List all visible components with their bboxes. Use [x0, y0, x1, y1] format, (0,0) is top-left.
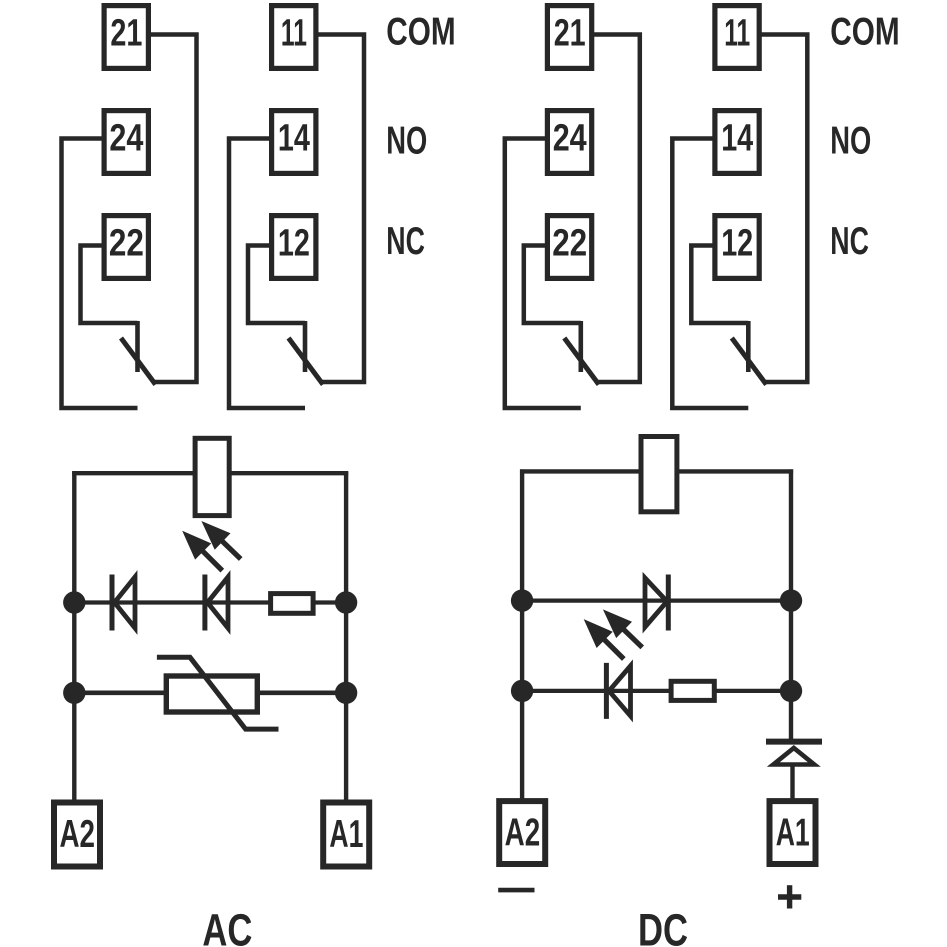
coil K2 (DC relay coil)	[641, 437, 677, 512]
varistor RV1 body (AC)	[166, 676, 257, 712]
polarity plus (DC A1)	[778, 885, 801, 908]
svg-text:A2: A2	[505, 812, 541, 855]
wire NC 12 (AC pole 1)	[248, 246, 305, 324]
NC fixed contact post (DC pole 1)	[746, 321, 751, 372]
wire AC right rail (A1)	[344, 471, 348, 802]
svg-text:A2: A2	[59, 813, 95, 856]
wire COM 11 to switch (AC pole 1)	[317, 35, 364, 383]
resistor R2 (DC)	[671, 681, 714, 700]
terminal 14 (AC pole 1)	[272, 111, 316, 174]
terminal 22 (AC pole 2)	[104, 216, 148, 279]
svg-text:COM: COM	[830, 11, 899, 54]
wire AC top	[72, 471, 348, 475]
wire AC varistor row	[74, 690, 346, 695]
wire DC row 1	[522, 598, 791, 602]
svg-text:22: 22	[109, 223, 144, 265]
terminal 21 (AC pole 2)	[104, 6, 148, 69]
terminal 11 (AC pole 1)	[272, 6, 316, 69]
terminal 24 (AC pole 2)	[104, 111, 148, 174]
svg-text:12: 12	[721, 223, 753, 265]
junction dot DC row1-right	[780, 589, 802, 611]
junction dot AC varistor-right	[335, 682, 357, 704]
switch blade changeover contact (AC pole 1)	[289, 338, 324, 385]
wire NO 24 (DC pole 2)	[505, 139, 581, 409]
wire NO 24 (AC pole 2)	[62, 139, 138, 409]
junction dot DC row2-left	[511, 680, 533, 702]
wire AC left rail (A2)	[72, 471, 76, 802]
wire DC row 2	[522, 689, 791, 693]
wire DC right rail upper (A1)	[789, 469, 793, 739]
wire DC right rail lower (A1)	[790, 765, 794, 800]
resistor R1 (AC)	[271, 594, 314, 614]
svg-text:21: 21	[554, 13, 586, 55]
coil K1 (AC relay coil)	[195, 438, 229, 515]
terminal A1 (DC)	[770, 801, 816, 864]
junction dot AC middle-left	[63, 591, 85, 613]
terminal 24 (DC pole 2)	[547, 111, 591, 174]
svg-text:22: 22	[552, 223, 587, 265]
switch blade changeover contact (AC pole 2)	[121, 338, 156, 385]
LED D2 emission arrows (AC)	[182, 521, 241, 571]
junction dot DC row2-right	[780, 680, 802, 702]
switch blade changeover contact (DC pole 2)	[564, 338, 599, 385]
NC fixed contact post (DC pole 2)	[578, 321, 583, 372]
wire DC top	[520, 469, 793, 473]
polarity minus (DC A2)	[498, 888, 534, 893]
wire NC 22 (DC pole 2)	[524, 246, 581, 324]
wire DC left rail (A2)	[520, 469, 524, 800]
LED D4 emission arrows (DC)	[584, 609, 643, 659]
diode D5 (DC series polarity diode, cathode up)	[766, 742, 822, 767]
wire AC middle row	[74, 600, 346, 604]
svg-text:COM: COM	[386, 11, 455, 54]
svg-text:24: 24	[553, 118, 587, 160]
LED D4 (DC, cathode left)	[606, 663, 630, 719]
terminal 21 (DC pole 2)	[547, 6, 591, 69]
LED D2 (AC, cathode left)	[205, 575, 228, 631]
svg-text:24: 24	[109, 118, 143, 160]
wire NC 12 (DC pole 1)	[691, 246, 748, 324]
terminal 12 (AC pole 1)	[272, 216, 316, 279]
svg-text:NO: NO	[830, 120, 871, 163]
svg-text:NC: NC	[386, 220, 425, 263]
junction dot DC row1-left	[511, 589, 533, 611]
terminal 11 (DC pole 1)	[715, 6, 759, 69]
terminal A1 (AC)	[323, 803, 369, 867]
NC fixed contact post (AC pole 1)	[303, 321, 308, 372]
svg-text:DC: DC	[638, 905, 688, 947]
svg-text:NO: NO	[386, 120, 427, 163]
varistor RV1 diagonal stroke (AC)	[157, 657, 279, 729]
svg-text:A1: A1	[329, 813, 363, 856]
wire COM 11 to switch (DC pole 1)	[760, 35, 807, 383]
terminal 22 (DC pole 2)	[547, 216, 591, 279]
junction dot AC middle-right	[335, 591, 357, 613]
svg-text:21: 21	[110, 13, 142, 55]
svg-text:14: 14	[721, 118, 753, 160]
terminal 14 (DC pole 1)	[715, 111, 759, 174]
wire NO 14 (AC pole 1)	[229, 139, 305, 409]
svg-text:12: 12	[278, 223, 310, 265]
wire COM 21 to switch (DC pole 2)	[593, 35, 640, 383]
svg-text:NC: NC	[830, 220, 869, 263]
svg-text:11: 11	[724, 13, 750, 55]
switch blade changeover contact (DC pole 1)	[732, 338, 767, 385]
wire NC 22 (AC pole 2)	[81, 246, 138, 324]
svg-text:14: 14	[278, 118, 310, 160]
NC fixed contact post (AC pole 2)	[135, 321, 140, 372]
terminal 12 (DC pole 1)	[715, 216, 759, 279]
svg-text:11: 11	[281, 13, 307, 55]
junction dot AC varistor-left	[63, 682, 85, 704]
wire NO 14 (DC pole 1)	[672, 139, 748, 409]
diode D3 (DC freewheel, cathode right)	[645, 575, 668, 631]
diode D1 (AC, cathode left)	[112, 575, 135, 631]
svg-text:A1: A1	[776, 812, 810, 855]
terminal A2 (DC)	[499, 801, 545, 864]
svg-text:AC: AC	[202, 905, 252, 947]
wire COM 21 to switch (AC pole 2)	[150, 35, 197, 383]
terminal A2 (AC)	[54, 803, 100, 867]
